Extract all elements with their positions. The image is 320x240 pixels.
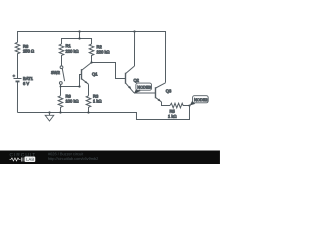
node dot base corner — [78, 85, 80, 87]
wire staple riser — [79, 31, 81, 38]
wire Q1 collector to Q2 base — [92, 62, 126, 78]
node dot staple — [78, 37, 80, 39]
svg-text:220 kΩ: 220 kΩ — [66, 49, 79, 54]
transistor Q1 — [81, 69, 83, 79]
svg-text:NODE2: NODE2 — [194, 98, 208, 102]
node dot top rail left — [78, 30, 80, 32]
wire Q3 emitter to R5 — [161, 102, 170, 106]
svg-text:SW2: SW2 — [51, 70, 61, 75]
logo LAB box — [24, 157, 35, 162]
svg-text:220 kΩ: 220 kΩ — [97, 49, 110, 54]
node dot R6 bottom — [59, 111, 61, 113]
wire staple horizontal — [62, 38, 92, 44]
resistor R1 — [59, 44, 64, 66]
node dot SW2 branch — [59, 85, 61, 87]
svg-text:Q1: Q1 — [92, 71, 98, 76]
node dot R3 bottom — [87, 111, 89, 113]
svg-text:Q3: Q3 — [166, 88, 172, 93]
svg-text:Q2: Q2 — [133, 78, 139, 83]
node flag NODE3 — [134, 88, 141, 94]
svg-text:100 kΩ: 100 kΩ — [65, 98, 78, 103]
logo capacitor — [20, 157, 22, 161]
svg-text:+: + — [13, 74, 16, 78]
footer bar — [0, 150, 220, 164]
node dot ground — [48, 111, 50, 113]
node flag NODE2 — [190, 101, 196, 106]
battery BAT1 — [14, 77, 22, 79]
resistor R6 — [58, 96, 63, 113]
transistor Q2 — [124, 73, 126, 84]
ground — [48, 112, 50, 115]
svg-text:R1: R1 — [66, 43, 72, 48]
wire Q2 emitter to Q3 base — [134, 92, 156, 94]
switch SW2 — [60, 66, 63, 69]
svg-text:http://circuitlab.com/c6v9mb2: http://circuitlab.com/c6v9mb2 — [48, 156, 98, 161]
wire ground rail — [17, 105, 189, 119]
svg-text:1 kΩ: 1 kΩ — [168, 114, 177, 119]
resistor R3 — [86, 96, 91, 113]
wire SW2 to Q1 base — [60, 74, 81, 86]
node dot top rail right — [133, 30, 135, 32]
node dot R2 bottom — [90, 61, 92, 63]
svg-text:NODE3: NODE3 — [137, 86, 151, 90]
svg-text:6 V: 6 V — [23, 81, 29, 86]
wire Q1 emitter to R3 — [87, 84, 89, 96]
resistor R5 — [170, 103, 190, 108]
resistor R2 — [89, 44, 94, 63]
logo resistor zigzag — [9, 158, 20, 161]
svg-text:250 Ω: 250 Ω — [23, 49, 34, 54]
resistor R8 — [15, 42, 20, 78]
wire top rail — [17, 31, 165, 82]
svg-text:LAB: LAB — [26, 157, 34, 162]
transistor Q3 — [154, 87, 156, 98]
svg-text:1 kΩ: 1 kΩ — [93, 98, 102, 103]
node dot R5 right — [188, 104, 190, 106]
